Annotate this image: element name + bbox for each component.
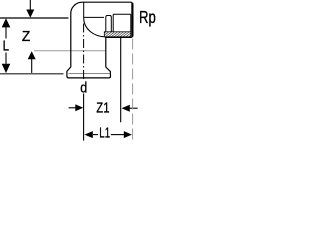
svg-text:L: L: [3, 38, 9, 55]
inner bend arc: [84, 18, 106, 37]
wire: L1 right extension line (gray dashed) x=132.6: [132, 39, 134, 142]
press arm centerline (dash-dot) x=84.4: [83, 24, 85, 82]
wire: Z1 right extension line x=120.7: [120, 38, 122, 122]
wire: lower gray extension line y=72.2: [0, 73, 64, 75]
node Z1 left arrow (points right): [69, 104, 84, 111]
thread hatch band: [104, 32, 131, 37]
elbow fitting body outline: [67, 2, 133, 78]
wire: axis extension line below d, x=84.5: [83, 94, 85, 141]
node Z bottom arrow (up): [28, 51, 36, 73]
inner small collar rect: [106, 16, 112, 32]
node L dimension line with arrows x=6: [2, 18, 11, 73]
socket right face (thick): [131, 3, 133, 36]
svg-text:Rp: Rp: [139, 7, 156, 27]
svg-text:L1: L1: [99, 126, 110, 142]
svg-text:Z: Z: [22, 28, 30, 45]
svg-text:Z1: Z1: [96, 101, 109, 117]
thread bore top line y=14.3: [113, 13, 131, 15]
inner stop line in press arm (gray) y=72: [69, 73, 111, 75]
wire: gray horizontal centerline y=50.4: [34, 50, 106, 52]
node Z top arrow (down): [26, 0, 34, 18]
inner bore line y=17.4: [84, 16, 104, 18]
inner vertical line x=83.7: [83, 2, 85, 18]
node L1 right arrow (points right): [111, 131, 132, 138]
thread bore left line x=113.2: [112, 14, 114, 31]
wire: top extension line y=17.7: [0, 17, 69, 19]
node Z1 right arrow (points left): [122, 105, 138, 112]
node L1 left arrow (points left): [84, 131, 98, 138]
thread bore right line: [130, 14, 132, 31]
